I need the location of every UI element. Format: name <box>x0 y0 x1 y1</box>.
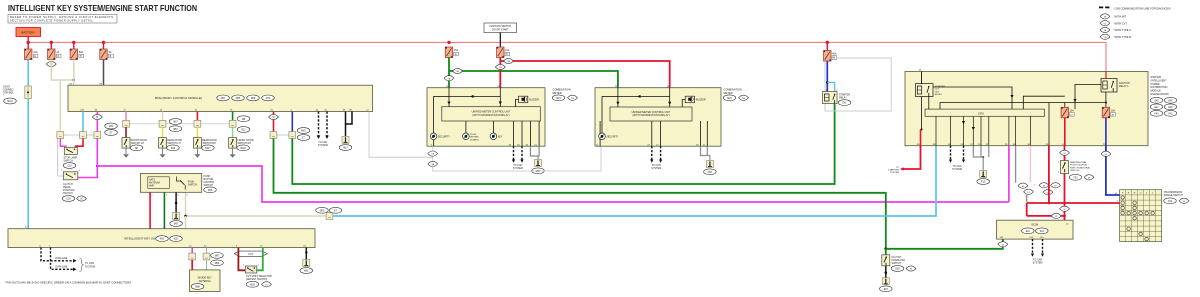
wire red IPDM pin 83 to starting system <box>904 146 921 169</box>
ground bolt PBIS <box>173 213 180 220</box>
svg-text:B12: B12 <box>241 130 246 132</box>
transmission range switch label <box>1164 191 1189 204</box>
meter2 pin numbers <box>596 86 706 147</box>
svg-text:E15: E15 <box>981 182 986 184</box>
ECM pin numbers <box>1000 224 1070 240</box>
ground bolt clutch interlock <box>882 278 889 285</box>
svg-text:: CAN COMMUNICATION LINE FOR D: : CAN COMMUNICATION LINE FOR DIAGNOSIS <box>1113 6 1171 10</box>
svg-text:METER: METER <box>724 91 733 95</box>
ground arrow door 3 <box>194 149 200 158</box>
lens V1 on blue <box>1101 151 1111 156</box>
svg-text:M67: M67 <box>221 98 226 100</box>
svg-text:E47: E47 <box>1154 107 1159 109</box>
wire green fuse to meter1 <box>448 58 450 88</box>
wire red horizontal to meter2 <box>500 61 669 88</box>
wire magenta BCM pin 98 <box>96 112 98 132</box>
IPDM interior pin drops <box>936 116 1016 145</box>
node red junction dots <box>1048 202 1051 205</box>
meter1 interior wires <box>434 88 540 147</box>
svg-text:E38: E38 <box>895 269 900 271</box>
svg-text:KEY: KEY <box>498 135 503 138</box>
svg-text:BATTERY: BATTERY <box>21 31 35 35</box>
labels M62 E7 pin5 <box>297 128 310 141</box>
wire link gray pin81-pin5 <box>274 134 293 136</box>
svg-text:SWITCH): SWITCH) <box>1070 170 1080 172</box>
wire cyan long to IPDM pin 92 <box>333 146 936 216</box>
svg-text:M: M <box>273 116 275 119</box>
ground bolt IKU <box>303 260 310 267</box>
meter1 push engine start indicator <box>463 133 480 141</box>
svg-text:E15: E15 <box>884 289 889 291</box>
wire green IKU pin 15 to CVT switch <box>257 248 263 271</box>
IPDM interior routing <box>922 85 1106 146</box>
svg-text:ON OR START: ON OR START <box>492 29 509 32</box>
svg-text:SWITCH LH: SWITCH LH <box>131 142 144 145</box>
wire battery bus (pale red) <box>28 42 1106 71</box>
clutch interlock switch label <box>891 256 916 271</box>
svg-text:SYSTEM: SYSTEM <box>318 144 328 147</box>
wire beige junction to IKU <box>185 216 187 229</box>
svg-text:SECTION FOR COMPLETE POWER SUP: SECTION FOR COMPLETE POWER SUPPLY DETAIL… <box>10 19 94 23</box>
wire black ignition switch to fuse <box>499 33 501 48</box>
legend with CVT <box>1100 21 1127 26</box>
stop lamp switch <box>62 146 79 155</box>
svg-text:G: G <box>455 53 457 56</box>
wire BCM ground pair <box>346 112 353 137</box>
legend with type B <box>1100 34 1131 39</box>
meter1 buzzer <box>519 96 540 103</box>
svg-text:15A: 15A <box>454 49 459 52</box>
svg-text:(START): (START) <box>470 138 479 141</box>
connector box antenna 1 <box>189 253 196 260</box>
svg-text:M88: M88 <box>195 287 200 289</box>
fuse 10A G <box>25 49 38 60</box>
svg-text:: WITH M/T: : WITH M/T <box>1113 15 1127 19</box>
intelligent key unit block <box>8 229 315 248</box>
svg-text:SYSTEM: SYSTEM <box>513 167 523 170</box>
clutch pedal position switch label <box>62 183 86 202</box>
combination meter 1 label <box>552 88 577 101</box>
wire red pin 83 inside <box>920 130 922 146</box>
wire cyan BCM pin 108 <box>82 112 84 132</box>
lens M on pin 81 wire <box>269 114 279 119</box>
clutch pedal position switch <box>61 170 81 180</box>
front door switch RH <box>229 138 237 149</box>
CVT shift selector label <box>246 275 272 287</box>
svg-text:10A: 10A <box>1070 110 1075 113</box>
wire magenta IPDM pin 28 <box>1008 146 1010 202</box>
hexagon CVT option <box>234 251 267 256</box>
wire beige BCM pin 73 <box>162 112 164 121</box>
lens M on pin 11 <box>1060 150 1070 155</box>
joint connector label <box>3 86 16 104</box>
connector box under pin 98 <box>94 132 101 139</box>
svg-text:: WITH CVT: : WITH CVT <box>1113 21 1127 25</box>
svg-text:50A: 50A <box>79 51 84 54</box>
svg-text:H: H <box>506 53 508 56</box>
wire dark red to front door switch LH <box>125 127 127 137</box>
wire blue BCM pin 5 <box>291 112 293 132</box>
push button ignition switch label <box>204 175 217 193</box>
svg-text:O: O <box>57 55 59 58</box>
svg-text:M: M <box>81 198 83 201</box>
svg-text:STARTER: STARTER <box>935 85 945 88</box>
connector box door 3 <box>194 120 201 127</box>
meter1 key indicator <box>490 133 503 140</box>
connector box beige-cyan <box>326 213 333 220</box>
rear door switch LH <box>159 138 167 149</box>
node blue junction <box>826 81 829 84</box>
transmission range switch grid <box>1120 190 1162 242</box>
connector box door 4 <box>229 120 236 127</box>
svg-text:M: M <box>1002 244 1004 246</box>
svg-text:M61: M61 <box>304 271 309 273</box>
svg-text:M57: M57 <box>343 148 348 150</box>
svg-text:BCM (BODY CONTROL MODULE): BCM (BODY CONTROL MODULE) <box>155 96 202 100</box>
svg-text:M: M <box>1064 153 1066 155</box>
meter2 security indicator <box>599 133 619 140</box>
meter1 ground wires <box>530 146 539 159</box>
rear door switch RH <box>193 138 201 149</box>
svg-text:SWITCH LH: SWITCH LH <box>167 142 180 145</box>
wire magenta to stop lamp pin 1 <box>60 138 66 147</box>
meter2 buzzer <box>685 96 706 103</box>
wire gray IPDM pin 104 option chain <box>1016 146 1034 202</box>
svg-text:REFER TO POWER SUPPLY, GROUND: REFER TO POWER SUPPLY, GROUND & CIRCUIT … <box>10 15 113 19</box>
wire red fuse to meter1 <box>499 58 501 88</box>
PBIS pin numbers <box>151 194 188 196</box>
wire data line 1 dashed <box>41 248 73 270</box>
svg-text:10A: 10A <box>1111 110 1116 113</box>
svg-text:M: M <box>1088 177 1090 179</box>
svg-text:M: M <box>1055 185 1057 187</box>
svg-text:STARTING: STARTING <box>888 169 899 172</box>
wire green2 long <box>274 138 886 248</box>
ground arrow door 2 <box>160 149 166 158</box>
ground bolt meter2 <box>706 161 713 168</box>
wire green PBIS to IKU <box>163 192 165 228</box>
node beige junction <box>184 215 187 218</box>
wire green BCM pin 75 <box>232 112 234 121</box>
svg-text:BUZZER: BUZZER <box>696 99 706 102</box>
svg-text:M24: M24 <box>556 98 561 100</box>
fuse 10A 57 inside IPDM <box>1061 107 1074 118</box>
svg-text:RANGE SWITCH: RANGE SWITCH <box>1164 194 1183 197</box>
wire light green to front door switch RH <box>232 127 234 137</box>
svg-text:M86: M86 <box>215 263 220 265</box>
wire blue IPDM pin 73 to TRS <box>1106 146 1120 195</box>
node green junction clutch interlock <box>884 247 887 250</box>
svg-text:AMP.: AMP. <box>149 184 155 187</box>
svg-text:SYSTEM: SYSTEM <box>85 265 95 268</box>
svg-text:B118: B118 <box>240 148 246 150</box>
svg-text:B52: B52 <box>173 129 178 131</box>
wire blue fuse to starter relay <box>826 61 828 92</box>
fuse 50A H <box>70 49 83 60</box>
svg-text:POSITION (PNP): POSITION (PNP) <box>1070 165 1087 167</box>
battery <box>16 28 41 37</box>
wire red fuse57 to pin 11 <box>1064 118 1066 146</box>
wire red BCM pin 46 <box>196 112 198 121</box>
svg-text:C18: C18 <box>67 166 72 168</box>
svg-text:OUT: OUT <box>935 91 940 93</box>
wire yellow to rear door switch RH <box>196 127 198 137</box>
ground bolt IPDM <box>980 171 987 178</box>
ECM block <box>997 220 1074 239</box>
starter cutout relay label <box>935 85 945 96</box>
labels M87 M86 <box>211 253 224 266</box>
joint connector M01 box <box>25 86 32 99</box>
front door switch LH <box>122 138 130 149</box>
rear door switch RH label <box>202 139 217 151</box>
CVT shift selector detent switch <box>243 264 260 273</box>
lens YB on red <box>495 64 505 69</box>
wire yellow to rear door switch LH <box>162 127 164 137</box>
svg-text:* PIN-OUTS MAY BE IN NO SPECIF: * PIN-OUTS MAY BE IN NO SPECIFIC ORDER O… <box>5 280 133 284</box>
svg-text:M57: M57 <box>708 172 713 174</box>
combination meter 2 label <box>723 88 748 101</box>
connector box antenna 2 <box>203 253 210 260</box>
ignition relay-1 label <box>1119 82 1130 88</box>
starter relay <box>823 90 839 104</box>
lens M below junction <box>1060 206 1070 211</box>
svg-text:E45: E45 <box>1154 100 1159 102</box>
wire green1 long <box>292 104 834 184</box>
lens M on pin 98 wire <box>92 114 102 119</box>
wire magenta horizontal upper <box>97 166 1009 202</box>
svg-text:(WITH INFORMATION DISPLAY): (WITH INFORMATION DISPLAY) <box>632 114 669 117</box>
wire blue fuse49 to pin 73 <box>1105 118 1107 146</box>
svg-text:: WITH TYPE A: : WITH TYPE A <box>1113 28 1131 32</box>
wire BCM CAN dashes <box>319 112 328 136</box>
svg-text:C30: C30 <box>66 199 71 201</box>
svg-text:(WITH INFORMATION DISPLAY): (WITH INFORMATION DISPLAY) <box>472 114 509 117</box>
IPDM CAN dashes <box>951 146 964 160</box>
wire link gray door connector row <box>126 123 233 125</box>
wire beige fuse H to BCM pin 83 <box>73 60 75 86</box>
svg-text:M24: M24 <box>727 98 732 100</box>
park neutral position switch label <box>1069 161 1094 180</box>
starter cutout relay <box>916 84 934 97</box>
svg-text:M: M <box>1104 17 1106 19</box>
wire black top pin to starter cutout relay <box>921 72 923 84</box>
svg-text:TOR-M01: TOR-M01 <box>3 92 14 95</box>
wire red PBIS to IKU <box>149 192 151 228</box>
IPDM ER block <box>905 72 1148 146</box>
svg-text:M: M <box>833 57 835 60</box>
svg-text:: WITH TYPE B: : WITH TYPE B <box>1113 35 1131 39</box>
wire pink BCM pin 72 <box>125 112 127 121</box>
svg-text:TO: TO <box>896 167 899 169</box>
IPDM ground wires <box>973 146 989 171</box>
svg-text:E41: E41 <box>842 103 847 105</box>
ground bolt BCM <box>342 136 349 143</box>
svg-text:SYSTEM: SYSTEM <box>1033 261 1043 264</box>
svg-text:M: M <box>910 269 912 271</box>
note box: refer to power supply <box>8 15 117 24</box>
svg-text:E46: E46 <box>1168 100 1173 102</box>
svg-text:DATA LINE: DATA LINE <box>56 257 68 260</box>
to starting system label <box>888 167 899 174</box>
BCM to CAN system label <box>318 141 328 147</box>
svg-text:F10: F10 <box>1040 231 1045 233</box>
wire red to stop lamp pin 2 <box>76 138 84 147</box>
svg-text:5A: 5A <box>109 51 112 54</box>
svg-text:M67: M67 <box>173 122 178 124</box>
svg-text:SWITCH RH: SWITCH RH <box>202 142 216 145</box>
connector box under beige branch <box>57 132 64 139</box>
svg-text:PUSH: PUSH <box>470 134 476 136</box>
ignition switch box <box>484 23 517 33</box>
wire black IKU pin 23 to ground <box>305 248 307 260</box>
svg-text:M32: M32 <box>160 239 165 241</box>
svg-text:METER: METER <box>553 91 562 95</box>
wire fuse stubs from bus <box>28 42 103 49</box>
meter1 pin numbers <box>431 86 538 147</box>
wire battery feed <box>27 37 29 43</box>
wire magenta IKU pin 22 <box>191 248 193 254</box>
lens V1 on lower red <box>1051 213 1061 218</box>
svg-text:M25: M25 <box>208 190 213 192</box>
wire cyan branch into relay <box>827 82 834 91</box>
wire green stub to clutch interlock switch <box>885 249 887 255</box>
wire green horizontal to meter2 <box>449 71 618 88</box>
connector box pin 81 <box>270 132 277 139</box>
wire cyan from fuse G down to joint connector <box>27 60 29 87</box>
lens M below fuse 1A <box>46 61 56 66</box>
wire red bus to fuse 40A <box>826 42 828 50</box>
wire gray clutch pedal link <box>58 138 64 176</box>
fuse 1A O <box>48 49 61 60</box>
svg-text:RELAY: RELAY <box>839 97 847 100</box>
lens YA on red <box>504 58 514 63</box>
labels M62 E7 <box>105 123 118 135</box>
wire red horizontal to TRS pin 7 <box>1027 202 1120 204</box>
meter2 ground wires <box>701 146 710 160</box>
svg-text:DATA LINE: DATA LINE <box>56 265 68 268</box>
wire red vertical branch <box>1026 203 1028 216</box>
svg-text:SWITCH: SWITCH <box>63 192 73 195</box>
wire pale pink IPDM pin 94 option chain <box>1030 146 1052 195</box>
svg-text:SYSTEM: SYSTEM <box>890 172 899 174</box>
labels M50 E7 <box>316 207 342 213</box>
svg-text:SWITCH: SWITCH <box>64 159 74 162</box>
labels M8 B12 <box>237 116 250 133</box>
svg-text:BUZZER: BUZZER <box>529 99 539 102</box>
svg-text:40A: 40A <box>832 53 837 56</box>
meter1 security indicator <box>430 133 450 140</box>
wire cyan joint connector to IKU <box>27 99 29 229</box>
connector box door 1 <box>123 120 130 127</box>
IPDM bottom pin numbers <box>917 144 1106 146</box>
node junction dot beige <box>73 79 75 81</box>
connector box under pin 108 <box>80 132 87 139</box>
svg-text:M: M <box>1043 185 1045 187</box>
svg-text:ANTENNA: ANTENNA <box>199 280 211 283</box>
svg-text:*: * <box>3 95 4 98</box>
wire black clutch interlock to ground <box>885 266 887 278</box>
fuse 5A B <box>100 49 113 60</box>
ground arrow door 4 <box>230 149 236 158</box>
svg-text:M70: M70 <box>266 98 271 100</box>
wire magenta down to clutch pedal switch <box>78 138 98 177</box>
wire dark gray fuse B to BCM pin 89 <box>103 60 105 86</box>
svg-text:ECM: ECM <box>1031 223 1038 227</box>
svg-text:G: G <box>34 55 36 58</box>
legend CAN line <box>1099 6 1171 10</box>
svg-text:M62: M62 <box>109 126 114 128</box>
svg-text:CPU: CPU <box>978 111 984 115</box>
svg-text:1A: 1A <box>56 51 59 54</box>
wire beige PBIS to cyan connector <box>186 192 327 216</box>
svg-text:M69: M69 <box>251 98 256 100</box>
svg-text:M50: M50 <box>320 210 325 212</box>
wire red IPDM pin 98 <box>1048 146 1050 203</box>
wire link gray connector row left <box>60 134 97 136</box>
fuse 10A 49 inside IPDM <box>1102 107 1115 118</box>
brace to CAN system <box>80 258 84 272</box>
ground bolt meter1 <box>535 160 542 167</box>
wire red PNP down <box>1064 174 1066 204</box>
clutch interlock switch <box>882 255 890 266</box>
ground arrow door 1 <box>123 149 129 158</box>
svg-text:ENGINE ROOM): ENGINE ROOM) <box>1151 93 1169 96</box>
BCM bottom pin numbers <box>80 109 369 111</box>
svg-text:M36: M36 <box>250 284 255 286</box>
node magenta junction <box>96 165 99 168</box>
wire beige branch down to connector row <box>59 80 61 132</box>
svg-text:SWITCH RH: SWITCH RH <box>237 142 251 145</box>
svg-text:INTELLIGENT KEY SYSTEM/ENGINE: INTELLIGENT KEY SYSTEM/ENGINE START FUNC… <box>8 4 197 13</box>
meter2 CAN dashes <box>652 146 661 159</box>
node bus junction dots <box>27 41 830 44</box>
wire green horizontal to ECM pin 142 <box>886 239 1003 249</box>
wire gray option BCM pin 12 to YA <box>369 112 433 158</box>
push button ignition switch block <box>140 174 201 193</box>
svg-text:10A: 10A <box>33 51 38 54</box>
combination meter 2 block <box>595 88 721 147</box>
ECM CAN dashes <box>1033 239 1043 253</box>
meter1 CAN dashes <box>514 146 523 159</box>
svg-text:PARK/NEUTRAL: PARK/NEUTRAL <box>1070 161 1087 164</box>
svg-text:SYSTEM: SYSTEM <box>952 168 962 171</box>
svg-text:E48: E48 <box>1168 107 1173 109</box>
svg-text:SECURITY: SECURITY <box>606 135 618 138</box>
wire gray to antenna <box>206 260 208 270</box>
svg-text:10A: 10A <box>505 49 510 52</box>
combination meter 1 block <box>427 88 545 147</box>
connector box door 2 <box>159 120 166 127</box>
svg-text:M: M <box>1064 209 1066 211</box>
svg-text:M68: M68 <box>236 98 241 100</box>
fuse 15A G meter <box>445 47 458 58</box>
wire black PBIS to ground <box>175 192 177 212</box>
inside key antenna block <box>190 270 221 292</box>
svg-text:SWITCH: SWITCH <box>188 184 197 186</box>
fuse 40A M <box>824 51 837 62</box>
ignition relay-1 <box>1101 79 1117 93</box>
fuse 10A H meter <box>497 47 510 58</box>
svg-text:M62: M62 <box>301 131 306 133</box>
option gray meter1 pin7 to YB YA chain <box>428 146 601 171</box>
svg-text:M: M <box>1022 186 1024 188</box>
svg-text:SWITCH: SWITCH <box>204 184 214 187</box>
lens YB on green <box>444 76 454 81</box>
wire beige fuse O down and over <box>51 60 74 81</box>
svg-text:(DETENT SWITCH): (DETENT SWITCH) <box>246 278 267 281</box>
wire red PNP to ECM pin <box>1064 203 1066 220</box>
svg-text:M57: M57 <box>174 224 179 226</box>
